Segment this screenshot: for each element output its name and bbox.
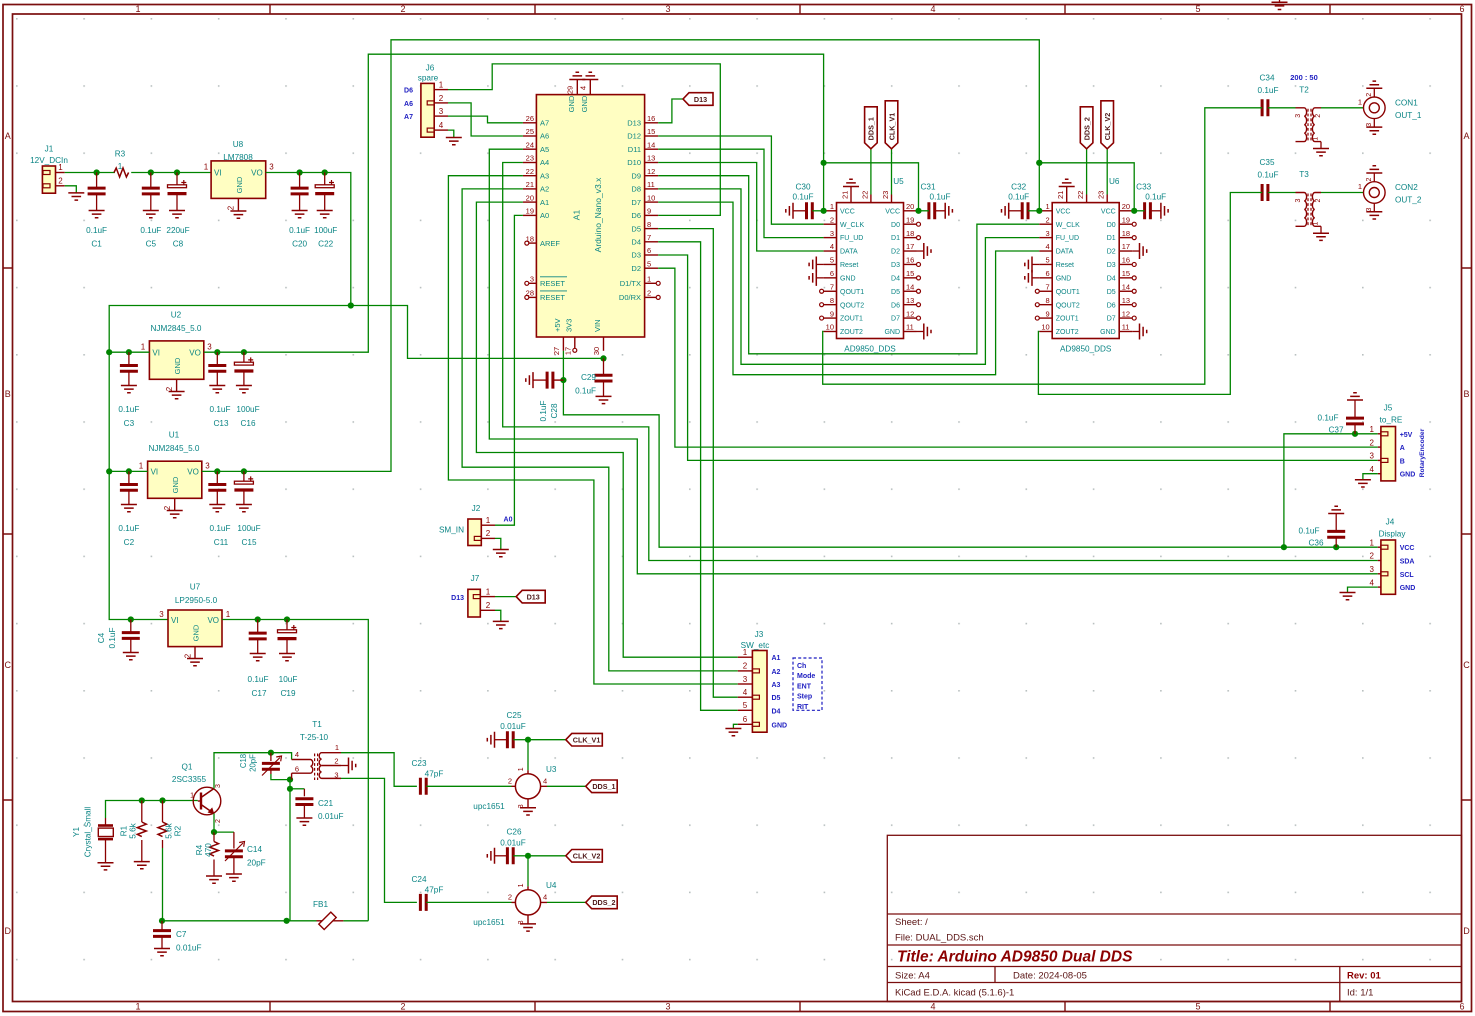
svg-text:0.1uF: 0.1uF [248,675,269,684]
svg-text:A2: A2 [540,185,549,194]
svg-text:ENT: ENT [797,683,812,690]
capacitor C22 [315,180,334,194]
svg-text:A7: A7 [404,114,413,121]
svg-text:2: 2 [1046,215,1050,224]
wire 5V rail of U5 [824,163,919,211]
svg-text:LM7808: LM7808 [223,153,253,162]
wire net A3 : to J3 pin3 [448,176,737,684]
pin 1 VCC of U5 [824,210,837,212]
wire net A4 SDA : to J4 pin2 [503,163,1378,561]
svg-text:C20: C20 [292,240,307,249]
wire T1 pin1 to C23 [341,753,417,787]
svg-text:SM_IN: SM_IN [439,526,464,535]
svg-text:3V3: 3V3 [564,319,573,332]
svg-text:6: 6 [295,765,299,774]
ferrite bead FB1 [317,920,344,922]
capacitor C37 0.1uF [1354,424,1356,434]
svg-text:0.1uF: 0.1uF [930,193,951,202]
svg-text:29: 29 [566,86,575,94]
svg-text:GND: GND [580,95,589,112]
wire DDS_2 [547,901,586,903]
svg-text:A: A [1400,445,1405,452]
pin 6 D3 of A1 [645,254,659,256]
ground at C28 [526,372,533,388]
svg-text:D13: D13 [627,119,641,128]
svg-text:C8: C8 [173,240,184,249]
resistor R4 [210,842,219,857]
wire to C21 tap [289,780,291,789]
svg-text:W_CLK: W_CLK [1056,222,1080,229]
hierarchical label D13 [683,93,713,106]
svg-text:A2: A2 [772,669,781,676]
svg-text:3: 3 [530,275,534,284]
pin 1 +5V of J5 [1378,433,1381,435]
svg-text:spare: spare [418,74,439,83]
svg-text:4: 4 [1370,465,1375,474]
svg-text:GND: GND [191,624,200,641]
svg-text:20: 20 [1122,202,1130,211]
pin 21 A2 of A1 [523,188,537,190]
svg-text:1: 1 [743,648,748,657]
svg-text:C5: C5 [146,240,157,249]
junction at C7 [159,918,165,924]
ground at C22 [317,211,333,218]
junction at C22 [322,169,328,175]
svg-text:12: 12 [647,167,655,176]
svg-text:3: 3 [334,771,338,780]
svg-text:100uF: 100uF [314,226,337,235]
svg-text:VI: VI [214,169,222,178]
svg-text:2: 2 [1370,438,1375,447]
svg-text:A: A [5,131,11,141]
svg-text:D3: D3 [631,251,641,260]
capacitor C11 0.1uF [216,471,218,484]
wire U8 output rail [266,173,351,306]
svg-text:14: 14 [906,282,914,291]
svg-text:Title: Arduino AD9850 Dual DDS: Title: Arduino AD9850 Dual DDS [897,949,1133,966]
capacitor [929,202,935,219]
pin 2 W_CLK of U6 [1039,223,1052,225]
ground at J1 pin2 [68,193,84,200]
pin 29 GND of A1 [576,80,578,95]
svg-text:1: 1 [118,162,123,171]
capacitor C8 220uF polarized [176,173,178,185]
svg-text:QOUT2: QOUT2 [1056,302,1080,309]
connector J4 Display [1381,540,1396,594]
pin 14 D5 of U5 [904,290,917,292]
svg-text:C21: C21 [318,799,333,808]
svg-text:QOUT1: QOUT1 [1056,289,1080,296]
pin 7 D4 of A1 [645,241,659,243]
regulator U7 LP2950-5.0 [168,610,222,647]
capacitor C15 [234,476,253,490]
svg-text:C4: C4 [97,632,106,643]
svg-text:NJM2845_5.0: NJM2845_5.0 [151,324,202,333]
svg-text:File: DUAL_DDS.sch: File: DUAL_DDS.sch [895,933,984,944]
svg-text:ZOUT2: ZOUT2 [1056,329,1079,336]
svg-text:5: 5 [647,259,651,268]
svg-text:U6: U6 [1109,177,1120,186]
svg-text:C30: C30 [795,183,810,192]
connector J2 SM_IN [468,519,481,546]
svg-text:1: 1 [518,767,525,771]
svg-text:Date: 2024-08-05: Date: 2024-08-05 [1013,971,1087,982]
svg-text:0.1uF: 0.1uF [118,524,139,533]
svg-text:C25: C25 [506,711,521,720]
pin 2 of U2 [176,379,178,391]
svg-text:23: 23 [1097,191,1106,199]
svg-text:GND: GND [1100,329,1116,336]
junction input rail U2 [106,349,112,355]
svg-text:D1: D1 [891,235,900,242]
svg-text:100uF: 100uF [237,524,260,533]
pin 8 QOUT2 of U6 [1039,304,1052,306]
ground at C3 [121,386,137,393]
hierarchical label CLK_V1 [885,101,898,149]
regulator U8 LM7808 [211,161,266,199]
svg-text:D7: D7 [891,316,900,323]
wire net D6 : J6 pin1 to A1 D6 [448,64,720,216]
svg-text:RESET: RESET [540,293,565,302]
svg-text:0.1uF: 0.1uF [1258,171,1279,180]
svg-text:5: 5 [1046,256,1050,265]
svg-text:D1: D1 [1107,235,1116,242]
wire net A7 : J6 pin3 to A1 A7 [448,116,523,123]
svg-text:+5V: +5V [1400,432,1413,439]
svg-text:1: 1 [1046,202,1050,211]
junction at C13 [214,349,220,355]
svg-text:AD9850_DDS: AD9850_DDS [1060,345,1112,354]
svg-text:13: 13 [1122,296,1130,305]
svg-text:D6: D6 [1107,302,1116,309]
pin 12 D9 of A1 [645,175,659,177]
svg-text:470: 470 [204,843,213,857]
svg-text:2: 2 [1370,552,1375,561]
svg-text:4: 4 [830,242,834,251]
junction at C37 [1352,431,1358,437]
junction at C28 [560,377,566,383]
svg-text:GND: GND [1056,275,1072,282]
svg-text:0.1uF: 0.1uF [210,524,231,533]
capacitor C36 0.1uF [1335,537,1337,547]
pin 25 A6 of A1 [523,135,537,137]
wire C26 to U4 pin1 [527,856,529,887]
pin 14 D11 of A1 [645,148,659,150]
svg-text:B: B [1463,389,1469,399]
svg-text:1: 1 [830,202,834,211]
svg-text:LP2950-5.0: LP2950-5.0 [175,596,218,605]
svg-text:1: 1 [135,1002,140,1012]
wire net A6 : J6 pin2 to A1 A6 [448,103,523,136]
svg-text:1: 1 [1313,221,1320,225]
svg-text:0.1uF: 0.1uF [289,226,310,235]
wire T2 pin2 to CON1 [1321,107,1364,109]
wire net D12 : to U5 W_CLK [658,136,823,224]
capacitor C17 [249,633,267,639]
svg-text:D5: D5 [1107,289,1116,296]
capacitor C3 0.1uF [128,352,130,365]
pin 20 A1 of A1 [523,201,537,203]
hierarchical label CLK_V1 [566,733,603,746]
pin 1 VCC of U6 [1039,210,1052,212]
svg-text:4: 4 [743,688,748,697]
svg-text:1: 1 [1370,538,1375,547]
ground at J2 pin2 [493,550,509,557]
wire oscillator base rail [105,818,107,826]
junction U6 VCC pin20 [1131,208,1137,214]
svg-text:Y1: Y1 [72,827,81,837]
resistor R2 5.6k [162,801,164,823]
svg-text:OUT_1: OUT_1 [1395,111,1422,120]
svg-text:100uF: 100uF [236,405,259,414]
svg-text:FU_UD: FU_UD [840,235,863,242]
svg-text:C15: C15 [241,538,256,547]
svg-text:D4: D4 [772,708,781,715]
wire Q1 collector to T1 [214,753,292,789]
svg-text:DDS_2: DDS_2 [592,898,615,907]
capacitor C29 [595,375,613,381]
pin 10 D7 of A1 [645,201,659,203]
svg-text:15: 15 [1122,269,1130,278]
ground at C31 [945,203,952,219]
pin 17 D2 of U6 [1119,250,1132,252]
wire CLK_V2 stem [1106,149,1108,195]
svg-text:7: 7 [647,233,651,242]
capacitor [1262,184,1268,201]
pin 3 RESET of A1 [529,282,536,284]
capacitor C29 0.1uF [603,358,605,375]
svg-text:U5: U5 [893,177,904,186]
svg-text:A6: A6 [540,132,549,141]
svg-text:3: 3 [1046,229,1050,238]
wire net A5 SCL : to J4 pin3 [489,149,1378,574]
svg-text:1: 1 [518,883,525,887]
svg-text:0.1uF: 0.1uF [1008,193,1029,202]
svg-text:1: 1 [135,4,140,14]
svg-text:2: 2 [400,1002,405,1012]
ground at CON1 pin3 [1366,127,1382,134]
svg-text:17: 17 [906,242,914,251]
svg-text:A1: A1 [540,198,549,207]
ground at U5 pin 17 [924,243,931,259]
svg-text:15: 15 [647,127,655,136]
svg-text:2: 2 [184,653,193,658]
ground at T3 pin1 [1313,233,1329,240]
junction at C26 [525,853,531,859]
svg-text:D: D [5,926,12,936]
ground at C14 [226,874,242,881]
svg-text:14: 14 [1122,282,1130,291]
pin 2 W_CLK of U5 [824,223,837,225]
ground flag bars at sheet top [1272,2,1288,9]
svg-text:VI: VI [152,349,160,358]
svg-text:R3: R3 [115,150,126,159]
pin 23 of U5 [891,195,893,203]
pin 3 A3 of J3 [738,683,753,685]
svg-text:Crystal_Small: Crystal_Small [84,807,93,858]
capacitor [507,847,513,864]
pin 16 D13 of A1 [645,122,659,124]
svg-text:GND: GND [1400,585,1416,592]
pin 4 GND of J5 [1378,473,1381,475]
pin 6 GND of U5 [824,277,837,279]
svg-text:CLK_V1: CLK_V1 [573,736,601,745]
svg-text:Rev: 01: Rev: 01 [1347,971,1382,982]
wire net D8 : to U6 FU_UD [658,189,1039,364]
junction at C19 [284,616,290,622]
resistor R4 470 [213,832,215,841]
svg-text:D4: D4 [891,275,900,282]
svg-text:20pF: 20pF [249,754,258,772]
junction at C3 [126,349,132,355]
svg-text:A1: A1 [772,655,781,662]
pin 7 QOUT1 of U6 [1039,290,1052,292]
svg-text:CON2: CON2 [1395,183,1418,192]
svg-text:47pF: 47pF [425,769,444,778]
svg-text:0.1uF: 0.1uF [210,405,231,414]
capacitor [420,778,426,795]
svg-text:4: 4 [579,86,588,90]
svg-text:Arduino_Nano_v3.x: Arduino_Nano_v3.x [593,177,603,252]
pin 11 GND of U6 [1119,330,1132,332]
pin 1 A1 of J3 [738,656,753,658]
junction C21 tap [287,786,293,792]
capacitor C19 10uF polarized [286,620,288,630]
pin 5 D2 of A1 [645,267,659,269]
wire U1 input [109,470,147,472]
svg-text:D2: D2 [1107,249,1116,256]
capacitor [807,202,813,219]
svg-text:4: 4 [439,121,444,130]
svg-text:2: 2 [486,601,491,610]
svg-text:CLK_V1: CLK_V1 [887,113,896,141]
svg-text:RIT: RIT [797,704,809,711]
pin 6 GND of J3 [738,723,753,725]
svg-text:19: 19 [906,215,914,224]
svg-text:23: 23 [526,154,534,163]
svg-text:J4: J4 [1386,518,1395,527]
svg-text:6: 6 [1459,4,1464,14]
junction at C15 [241,468,247,474]
svg-text:Sheet: /: Sheet: / [895,917,928,928]
capacitor C8 [168,180,187,194]
pin 1 VCC of J4 [1378,546,1381,548]
svg-text:14: 14 [647,140,655,149]
junction at C17 [255,616,261,622]
wire T2 pin1 to ground [1320,142,1322,149]
wire U7 output to FB1 [222,620,368,921]
svg-text:upc1651: upc1651 [473,802,505,811]
svg-text:A3: A3 [540,171,549,180]
svg-text:D5: D5 [891,289,900,296]
ground at C30 [786,203,793,219]
ground at C13 [209,386,225,393]
capacitor C13 0.1uF [216,352,218,365]
ground flag above CON2 [1366,166,1382,173]
svg-text:2: 2 [163,505,172,510]
svg-text:CLK_V2: CLK_V2 [1103,113,1112,141]
svg-text:Size: A4: Size: A4 [895,971,930,982]
pin 28 RESET of A1 [529,296,536,298]
svg-text:10: 10 [647,193,655,202]
hierarchical label DDS_1 [586,780,618,793]
wire DDS_1 stem [870,149,872,195]
svg-text:3: 3 [1295,114,1302,118]
pin 21 GND of U5 [850,187,852,203]
svg-text:Q1: Q1 [182,763,193,772]
capacitor C21 [295,799,313,805]
wire 12V to regulators input rail [109,306,351,620]
wire net A2 : to J3 pin2 [462,189,738,671]
junction at C36 [1333,544,1339,550]
svg-text:1: 1 [204,163,209,172]
svg-text:11: 11 [1122,323,1130,332]
wire net D9 : to U6 W_CLK [658,176,1039,354]
junction VIN [600,355,606,361]
wire CLK_V2 [528,855,566,857]
svg-text:D7: D7 [1107,316,1116,323]
svg-text:U3: U3 [546,765,557,774]
DDS module U6 AD9850_DDS body [1052,203,1119,339]
svg-text:D6: D6 [404,88,413,95]
ground at U3 pin3 [520,808,536,815]
svg-text:GND: GND [171,476,180,493]
connector J3 SW_etc [752,651,767,733]
pin 9 D6 of A1 [645,214,659,216]
capacitor C1 [88,188,106,194]
svg-text:D4: D4 [631,238,641,247]
junction at R2 [159,797,165,803]
pin 3 B of J5 [1378,459,1381,461]
svg-text:U7: U7 [190,583,201,592]
wire +5V branch to J5 [1284,434,1378,547]
pin 9 ZOUT1 of U5 [824,317,837,319]
ground at R4 [206,876,222,883]
capacitor C7 [153,931,171,937]
svg-text:9: 9 [647,207,651,216]
svg-text:22: 22 [1076,191,1085,199]
svg-text:D7: D7 [631,198,641,207]
svg-text:1: 1 [139,462,144,471]
ground at C8 [169,211,185,218]
svg-text:22: 22 [526,167,534,176]
pin 12 D7 of U5 [904,317,917,319]
svg-text:R2: R2 [174,825,183,836]
ground at U6 pin 5 [1025,256,1032,272]
svg-text:CLK_V2: CLK_V2 [573,852,601,861]
pin 15 D4 of U6 [1119,277,1132,279]
connector J5 to_RE [1381,427,1396,481]
pin 18 AREF of A1 [529,242,536,244]
svg-text:J5: J5 [1384,404,1393,413]
svg-text:2: 2 [508,776,512,785]
svg-text:4: 4 [295,750,299,759]
svg-text:220uF: 220uF [166,226,189,235]
svg-text:W_CLK: W_CLK [840,222,864,229]
ground at C33 [1161,203,1168,219]
capacitor C5 [142,188,160,194]
svg-text:C24: C24 [411,875,426,884]
svg-text:2: 2 [58,176,63,185]
pin 19 D0 of U6 [1119,223,1132,225]
wire C25 to U3 pin1 [527,740,529,771]
connector J1 12V_DCIn [42,166,55,193]
pin 22 A3 of A1 [523,175,537,177]
pin 19 A0 of A1 [523,214,537,216]
svg-text:5: 5 [743,701,748,710]
pin 30 VIN of A1 [603,337,605,351]
svg-text:3: 3 [1370,452,1375,461]
